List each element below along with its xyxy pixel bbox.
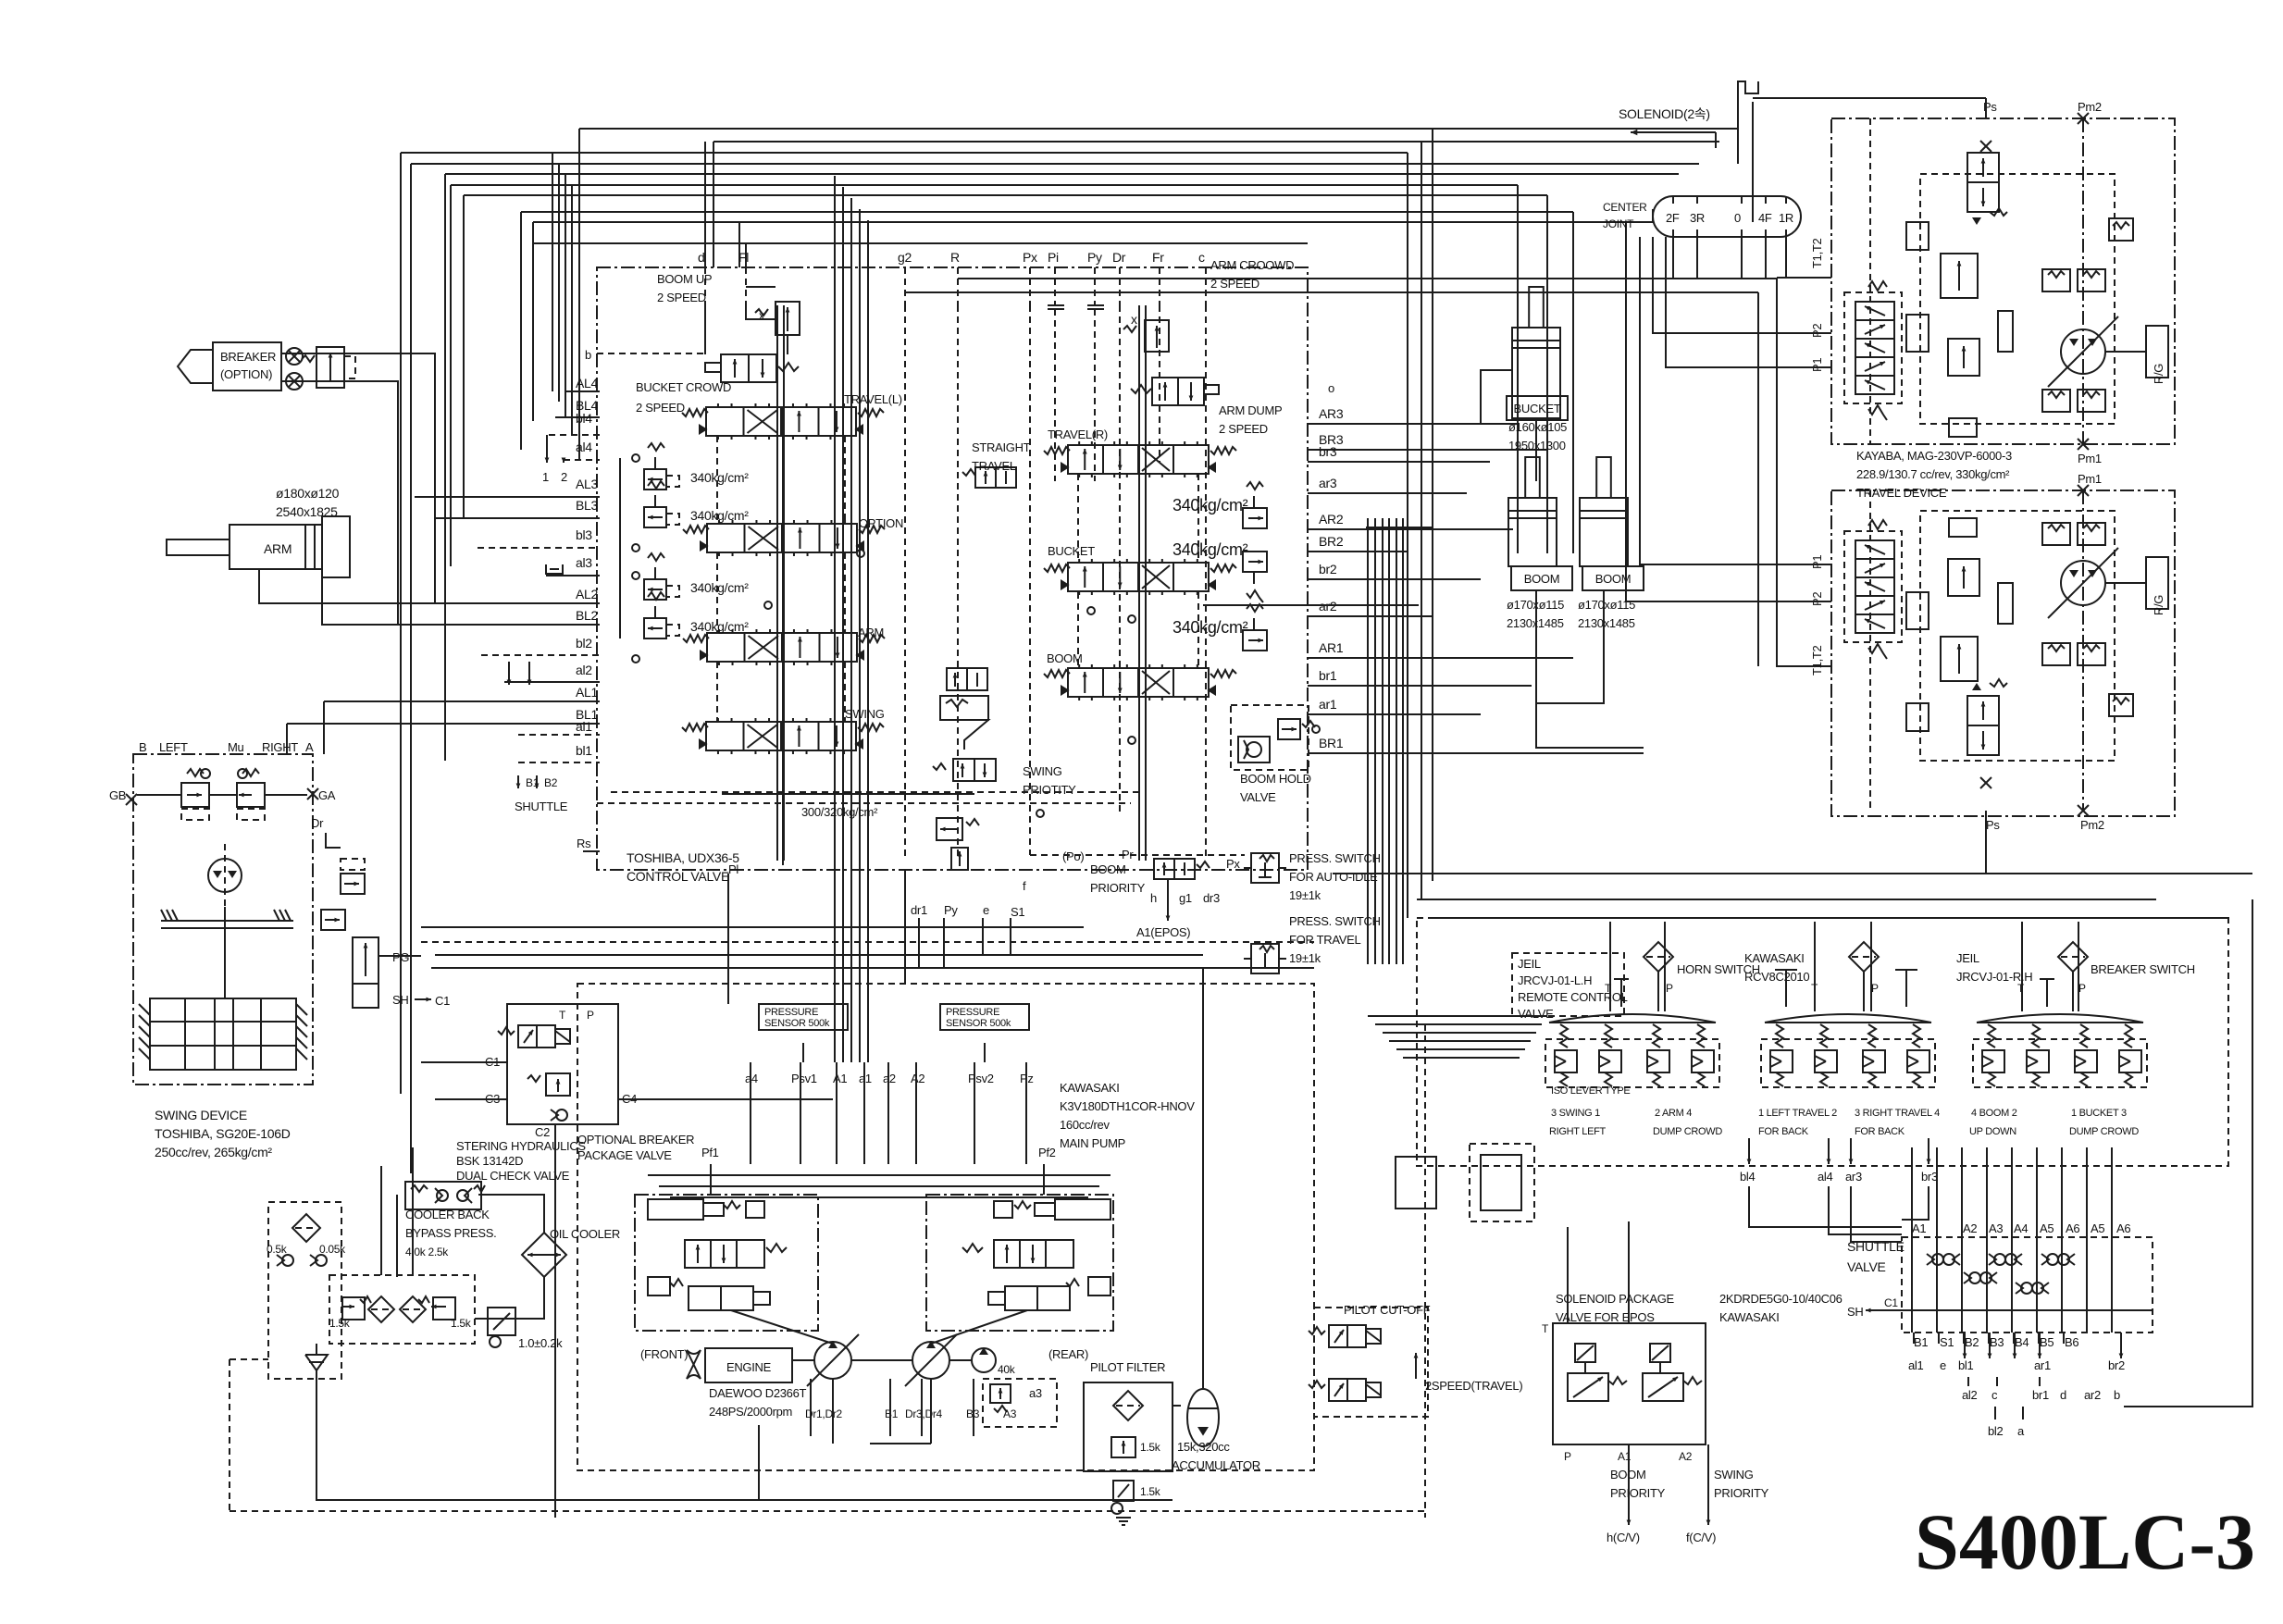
engine fan: [687, 1350, 701, 1379]
wire bottom pilot supply 1: [421, 926, 1084, 928]
svg-text:BUCKET: BUCKET: [1048, 544, 1095, 558]
arrow 2 down: [563, 460, 565, 463]
wire al4 to shuttle: [1829, 1186, 1902, 1234]
wire top bus drop 2: [410, 164, 412, 1173]
wire shuttle under drops: [1964, 1333, 1966, 1358]
svg-text:B6: B6: [2065, 1335, 2078, 1349]
svg-text:GB: GB: [109, 788, 126, 802]
breaker option box: [213, 342, 281, 391]
svg-text:T: T: [559, 1009, 566, 1022]
dashed tank line horiz: [230, 1510, 1425, 1512]
port al1 line: [518, 734, 600, 736]
rh lever: [2046, 979, 2048, 1007]
pressure sensor 2 box: [940, 1004, 1029, 1030]
svg-text:19±1k: 19±1k: [1289, 888, 1321, 902]
wire Pf1 drop: [710, 1164, 712, 1195]
relief gallery line: [619, 458, 621, 638]
wire center joint drops: [1672, 237, 1674, 278]
pilot pump: [972, 1347, 996, 1372]
svg-text:b: b: [585, 348, 591, 362]
svg-text:2 SPEED: 2 SPEED: [1219, 422, 1268, 436]
tank relief left: [342, 1297, 365, 1320]
pilot filter box: [1084, 1382, 1173, 1471]
svg-text:BOOM: BOOM: [1090, 862, 1126, 876]
svg-text:ar3: ar3: [1319, 476, 1337, 490]
svg-text:A6: A6: [2066, 1221, 2079, 1235]
svg-text:Fr: Fr: [1152, 250, 1164, 265]
svg-text:JOINT: JOINT: [1603, 217, 1634, 230]
svg-text:T: T: [1542, 1322, 1549, 1335]
svg-text:Pm2: Pm2: [2078, 100, 2102, 114]
port d line: [704, 267, 706, 305]
port g2 line: [904, 267, 906, 305]
solenoid pkg box: [1553, 1323, 1706, 1444]
wire top bus drop 25: [1432, 129, 1433, 881]
pilot dash right bank b: [1197, 474, 1199, 563]
pump shaft: [792, 1359, 814, 1361]
pressure sensor 1 box: [759, 1004, 848, 1030]
wire pkg C3: [435, 1098, 507, 1100]
svg-text:BUCKET CROWD: BUCKET CROWD: [636, 380, 731, 394]
breaker pkg valve: [498, 1025, 570, 1048]
port AR1 line: [1308, 657, 1573, 659]
svg-text:LEFT: LEFT: [159, 740, 188, 754]
svg-text:S400LC-3: S400LC-3: [1915, 1497, 2255, 1586]
wire Px dashed: [1030, 854, 1245, 856]
return filter diamond: [292, 1214, 320, 1242]
svg-text:TRAVEL(R): TRAVEL(R): [1048, 428, 1108, 441]
svg-text:al1: al1: [1908, 1358, 1924, 1372]
wire top bus drop 13: [578, 129, 580, 460]
svg-text:MAIN PUMP: MAIN PUMP: [1060, 1136, 1125, 1150]
wire big horiz 972: [1417, 899, 2156, 900]
svg-text:BYPASS PRESS.: BYPASS PRESS.: [405, 1226, 496, 1240]
wire big horiz 992: [1433, 917, 2228, 919]
svg-text:br3: br3: [1921, 1170, 1938, 1184]
arrow al4: [1828, 1138, 1830, 1164]
wire Pf2 drop: [1043, 1164, 1045, 1195]
svg-text:B5: B5: [2040, 1335, 2053, 1349]
svg-text:Fl: Fl: [738, 250, 749, 265]
wire top bus line 3: [401, 152, 1408, 154]
svg-text:ENGINE: ENGINE: [726, 1360, 772, 1374]
arrow 1 down: [546, 435, 548, 463]
junction circle 1: [1087, 607, 1095, 614]
svg-text:A3: A3: [1989, 1221, 2003, 1235]
svg-text:b: b: [2114, 1388, 2120, 1402]
svg-text:A2: A2: [1963, 1221, 1977, 1235]
svg-text:A5: A5: [2091, 1221, 2104, 1235]
pilot gnd: [1116, 1517, 1131, 1519]
svg-text:BREAKER SWITCH: BREAKER SWITCH: [2091, 962, 2195, 976]
pilot dash left bank c: [716, 552, 718, 633]
wire top bus line 9: [533, 221, 1653, 223]
port AL4 line: [566, 391, 600, 392]
port ar3 line: [1308, 492, 1467, 494]
tank relief right: [433, 1297, 455, 1320]
wire boom cyl feed: [1536, 590, 1644, 748]
pump 2: [905, 1334, 957, 1386]
svg-text:bl4: bl4: [576, 411, 592, 426]
pilot dash left bank b: [844, 436, 846, 524]
svg-text:SWING: SWING: [845, 707, 885, 721]
wire tank drop: [316, 1344, 317, 1355]
wire valve drops to sensors: [834, 1008, 836, 1062]
svg-text:AL3: AL3: [576, 477, 599, 491]
svg-text:UP DOWN: UP DOWN: [1969, 1126, 2016, 1137]
junction circle 2: [1128, 615, 1135, 623]
svg-text:Pm1: Pm1: [2078, 452, 2102, 465]
svg-text:2 SPEED: 2 SPEED: [657, 291, 706, 304]
wire remote bundle bend: [1367, 956, 1369, 958]
wire valve left drops: [834, 861, 836, 1008]
pilot relief 40k: [990, 1384, 1011, 1403]
pilot dash left bank d: [844, 552, 846, 633]
svg-text:ar3: ar3: [1845, 1170, 1862, 1184]
svg-text:340kg/cm²: 340kg/cm²: [690, 580, 749, 595]
port BL1 line: [287, 723, 600, 725]
pilot cluster RH: [1973, 1014, 2147, 1087]
wire top bus drop 7: [532, 222, 534, 243]
reg R spool: [994, 1240, 1073, 1268]
engine box: [705, 1348, 792, 1382]
svg-text:FOR BACK: FOR BACK: [1758, 1126, 1809, 1137]
svg-text:SWING DEVICE: SWING DEVICE: [155, 1108, 247, 1122]
bucket crowd valve: [721, 354, 776, 382]
arm dump valve: [1152, 378, 1204, 405]
pilot dash right bank c: [1077, 592, 1079, 668]
svg-text:B3: B3: [1990, 1335, 2004, 1349]
wire top bus drop 23: [1407, 153, 1408, 918]
port al3 line: [546, 575, 600, 576]
svg-text:bl3: bl3: [576, 527, 592, 542]
swing gearbox hatch L: [139, 1004, 150, 1015]
svg-text:0: 0: [1734, 211, 1741, 225]
wire bucket crowd link: [787, 335, 788, 354]
svg-text:PILOT CUT-OFF: PILOT CUT-OFF: [1344, 1303, 1431, 1317]
pump bottom line: [758, 1425, 760, 1499]
svg-text:160cc/rev: 160cc/rev: [1060, 1118, 1110, 1132]
svg-text:1.5k: 1.5k: [1140, 1485, 1161, 1498]
wire top bus line 5: [445, 173, 1679, 175]
arrow fCV: [1707, 1444, 1709, 1525]
port Dr line: [1119, 267, 1121, 305]
svg-text:2130x1485: 2130x1485: [1578, 616, 1635, 630]
wire pilot filter link: [1173, 1405, 1181, 1407]
wire top bus drop 16: [738, 222, 740, 267]
svg-text:R/G: R/G: [2152, 364, 2165, 384]
svg-text:Dr: Dr: [311, 816, 324, 830]
svg-text:TOSHIBA, SG20E-106D: TOSHIBA, SG20E-106D: [155, 1126, 291, 1141]
svg-text:PRESSURE: PRESSURE: [764, 1007, 818, 1018]
valve spool BUCKET: [1044, 559, 1236, 595]
dashed tank line up: [230, 1358, 268, 1360]
svg-text:JEIL: JEIL: [1518, 957, 1541, 971]
port AL3 line: [415, 496, 600, 498]
travel device upper: [1831, 118, 2175, 444]
svg-text:bl2: bl2: [576, 636, 592, 651]
svg-text:TRAVEL(L): TRAVEL(L): [844, 392, 902, 406]
wire pump ports verticals: [750, 1062, 751, 1164]
port c drop: [1205, 305, 1207, 861]
breaker pkg check: [551, 1110, 567, 1121]
svg-text:A6: A6: [2116, 1221, 2130, 1235]
port R line: [957, 267, 959, 305]
reg L actuator: [648, 1199, 703, 1220]
boom hold dashed frame: [1231, 705, 1309, 770]
pilot cutoff squares: [1396, 1157, 1436, 1209]
wire Ps lower drop: [1985, 811, 1987, 838]
svg-text:P2: P2: [1810, 592, 1824, 606]
wire pump harness h1: [648, 1174, 1110, 1176]
arrow bl4: [1748, 1138, 1750, 1164]
valve spool OPTION: [683, 520, 885, 556]
wire b dashed: [597, 353, 705, 354]
svg-text:BOOM UP: BOOM UP: [657, 272, 712, 286]
port BL3 line: [435, 517, 600, 519]
svg-text:al2: al2: [576, 663, 592, 677]
wire bl4 to shuttle: [1749, 1186, 1902, 1227]
relief feed diamonds: [632, 454, 639, 462]
svg-text:Dr3,Dr4: Dr3,Dr4: [905, 1407, 943, 1420]
wire T1T2 vertical: [1777, 278, 1831, 666]
svg-text:A5: A5: [2040, 1221, 2053, 1235]
dashed box 40k: [983, 1379, 1057, 1427]
wire top bus drop 30: [1652, 209, 1654, 222]
swing device boundary: [133, 754, 313, 1085]
wire P lines 1: [1626, 237, 1831, 601]
solenoid connector hook: [1738, 81, 1758, 93]
swing gear lines: [150, 1021, 296, 1023]
swing priority valve lower: [953, 759, 996, 781]
svg-text:228.9/130.7 cc/rev, 330kg/cm²: 228.9/130.7 cc/rev, 330kg/cm²: [1856, 467, 2010, 481]
pilot cutoff sq dashed: [1470, 1144, 1534, 1221]
wire cooler bypass loop: [396, 1195, 398, 1277]
svg-text:CENTER: CENTER: [1603, 201, 1647, 214]
svg-text:P: P: [1666, 982, 1673, 995]
svg-text:BR1: BR1: [1319, 736, 1344, 750]
wire top bus drop 12: [571, 185, 573, 435]
swing hatch left: [161, 910, 167, 921]
x mark Pm1 low: [2078, 485, 2089, 496]
svg-text:248PS/2000rpm: 248PS/2000rpm: [709, 1405, 792, 1419]
svg-text:a3: a3: [1029, 1386, 1042, 1400]
svg-text:PRIORITY: PRIORITY: [1714, 1486, 1769, 1500]
svg-text:R/G: R/G: [2152, 595, 2165, 615]
svg-text:4 BOOM 2: 4 BOOM 2: [1971, 1108, 2017, 1119]
svg-text:15k,320cc: 15k,320cc: [1177, 1440, 1230, 1454]
pilot filter relief: [1111, 1437, 1135, 1457]
svg-text:BUCKET: BUCKET: [1514, 402, 1561, 415]
wire cyl bundle 2: [1546, 450, 1548, 553]
arm cylinder body: [230, 525, 322, 569]
pilot cluster LH: [1545, 1014, 1719, 1087]
tank filter box: [329, 1275, 475, 1344]
svg-text:PG: PG: [392, 950, 409, 964]
svg-text:KAYABA, MAG-230VP-6000-3: KAYABA, MAG-230VP-6000-3: [1856, 449, 2012, 463]
svg-text:A2: A2: [1679, 1450, 1693, 1463]
wire breaker lower: [281, 381, 398, 625]
svg-text:DUMP CROWD: DUMP CROWD: [2069, 1126, 2139, 1137]
wire shuttle top feeds: [1911, 1203, 1913, 1333]
sol valve A1: [1575, 1344, 1595, 1362]
shuttle sym 5: [2016, 1283, 2032, 1294]
heavy dashed boundary: [597, 802, 1131, 804]
wire top bus drop 31: [1737, 88, 1739, 164]
svg-text:VALVE FOR EPOS: VALVE FOR EPOS: [1556, 1310, 1655, 1324]
svg-text:340kg/cm²: 340kg/cm²: [1173, 540, 1248, 559]
port BR3 line: [1308, 449, 1547, 451]
wire cluster risers: [1609, 922, 1611, 1011]
wire cooler in: [478, 1195, 544, 1233]
svg-text:P: P: [587, 1009, 594, 1022]
pilot cutoff valve 2: [1309, 1379, 1381, 1401]
x mark Pm1 up: [2078, 439, 2089, 450]
wire shuttle under drops2: [1967, 1377, 1969, 1386]
svg-text:1 LEFT TRAVEL 2: 1 LEFT TRAVEL 2: [1758, 1108, 1837, 1119]
svg-text:al2: al2: [1962, 1388, 1978, 1402]
boom cylinder 1: [1508, 457, 1572, 590]
swing motor dashes: [224, 844, 226, 907]
svg-text:f(C/V): f(C/V): [1686, 1531, 1716, 1544]
pump 1: [807, 1334, 859, 1386]
wire top bus drop 8: [532, 243, 534, 421]
arm crowd relief: [1145, 320, 1169, 352]
arrow A1 EPOS: [1167, 879, 1169, 921]
svg-text:2: 2: [561, 470, 567, 484]
svg-text:Rs: Rs: [577, 837, 591, 850]
svg-text:e: e: [983, 903, 989, 917]
swing relief left: [181, 783, 209, 807]
wire top bus line 1: [579, 128, 1738, 130]
svg-text:SH: SH: [1847, 1305, 1863, 1319]
port BL4 line: [555, 416, 600, 418]
svg-text:Pl: Pl: [728, 862, 738, 876]
svg-text:FOR BACK: FOR BACK: [1855, 1126, 1905, 1137]
arrow ar3: [1850, 1138, 1852, 1164]
svg-text:AR3: AR3: [1319, 406, 1344, 421]
svg-text:BSK 13142D: BSK 13142D: [456, 1154, 523, 1168]
svg-text:SHUTTLE: SHUTTLE: [515, 800, 568, 813]
al3 tank hook: [546, 564, 563, 574]
svg-text:BL3: BL3: [576, 498, 599, 513]
relief valve 340kg right 2: [1243, 552, 1267, 572]
svg-text:AL2: AL2: [576, 587, 599, 601]
wire top bus drop 3: [444, 174, 446, 761]
svg-text:0.5k: 0.5k: [267, 1243, 288, 1256]
port bl3 line: [478, 547, 600, 549]
boom up relief: [775, 302, 800, 335]
svg-text:TOSHIBA, UDX36-5: TOSHIBA, UDX36-5: [627, 850, 739, 865]
svg-text:br3: br3: [1319, 444, 1337, 459]
svg-text:1.5k: 1.5k: [1140, 1441, 1161, 1454]
svg-text:e: e: [1940, 1358, 1946, 1372]
svg-text:SOLENOID PACKAGE: SOLENOID PACKAGE: [1556, 1292, 1675, 1306]
accumulator: [1187, 1389, 1219, 1446]
arrow br3: [1928, 1138, 1929, 1164]
svg-text:FOR TRAVEL: FOR TRAVEL: [1289, 933, 1360, 947]
tank symbol: [305, 1355, 328, 1370]
travel device lower: [1831, 490, 2175, 816]
shuttle sym 2: [1989, 1254, 2005, 1265]
svg-text:h: h: [1150, 891, 1157, 905]
swing gearbox hatch R: [296, 1004, 307, 1015]
wire filter links: [1657, 972, 1659, 1011]
svg-text:BL2: BL2: [576, 608, 599, 623]
wire cooler out: [475, 1277, 544, 1319]
relief valve 340kg left 2: [644, 507, 666, 527]
wire boom cyl 2 feed: [1536, 590, 1604, 703]
svg-text:PRESSURE: PRESSURE: [946, 1007, 999, 1018]
svg-text:al4: al4: [576, 440, 592, 454]
wire top bus drop 32: [1752, 102, 1754, 222]
port AL1 line: [324, 700, 600, 702]
svg-text:o: o: [1328, 381, 1334, 395]
svg-text:BOOM HOLD: BOOM HOLD: [1240, 772, 1311, 786]
heavy valve supply: [782, 407, 784, 865]
svg-text:RCV8C2010: RCV8C2010: [1744, 970, 1809, 984]
x mark pm2 u: [2078, 113, 2089, 124]
solenoid arrow: [1631, 131, 1716, 133]
wire arm cyl BL2: [322, 576, 576, 625]
port B1 B2 arrows: [517, 775, 519, 788]
wire S1 drop: [1010, 918, 1011, 955]
svg-text:BOOM: BOOM: [1524, 572, 1560, 586]
straight travel valve: [975, 467, 1016, 488]
wire Ps upper drop: [1985, 98, 1987, 118]
wire d port link: [704, 305, 706, 354]
wire top bus drop 28: [1572, 212, 1574, 553]
orifice Py: [1087, 304, 1104, 306]
boom priority valve: [1154, 859, 1195, 879]
svg-text:CONTROL VALVE: CONTROL VALVE: [627, 869, 729, 884]
arrow al2 down pair: [508, 662, 510, 685]
wire ar3 to shuttle: [1851, 1186, 1902, 1242]
svg-text:A1(EPOS): A1(EPOS): [1136, 925, 1190, 939]
svg-text:P1: P1: [1810, 555, 1824, 569]
wire breaker to bus: [281, 353, 435, 603]
svg-text:TRAVEL: TRAVEL: [972, 459, 1016, 473]
svg-text:c: c: [1991, 1388, 1998, 1402]
svg-text:RIGHT LEFT: RIGHT LEFT: [1549, 1126, 1607, 1137]
x mark Pm2 low: [2078, 805, 2089, 816]
wire br3 to shuttle: [1902, 1186, 1929, 1220]
wire top bus drop 27: [1546, 195, 1548, 553]
svg-text:B1: B1: [526, 776, 540, 789]
arm cylinder head: [322, 516, 350, 577]
pilot cluster MID: [1761, 1014, 1935, 1087]
svg-text:BOOM: BOOM: [1047, 651, 1083, 665]
port Px drop: [1029, 305, 1031, 855]
svg-text:c: c: [1198, 250, 1205, 265]
heavy swing line: [722, 793, 974, 795]
wire top bus drop 29: [1625, 222, 1627, 601]
svg-text:x: x: [1131, 312, 1137, 327]
wire Pm2 upper: [2082, 118, 2084, 444]
wire pump harness h3: [670, 1196, 1088, 1198]
pilot cutoff valve 1: [1309, 1325, 1381, 1347]
svg-text:Pf1: Pf1: [701, 1146, 719, 1159]
svg-text:(OPTION): (OPTION): [220, 367, 272, 381]
svg-text:Ps: Ps: [1986, 818, 2000, 832]
svg-text:19±1k: 19±1k: [1289, 951, 1321, 965]
x mark Ps up: [1980, 141, 1991, 152]
svg-text:S1: S1: [1940, 1335, 1954, 1349]
svg-text:KAWASAKI: KAWASAKI: [1744, 951, 1805, 965]
svg-text:K3V180DTH1COR-HNOV: K3V180DTH1COR-HNOV: [1060, 1099, 1195, 1113]
svg-text:AR2: AR2: [1319, 512, 1344, 527]
svg-text:340kg/cm²: 340kg/cm²: [690, 508, 749, 523]
